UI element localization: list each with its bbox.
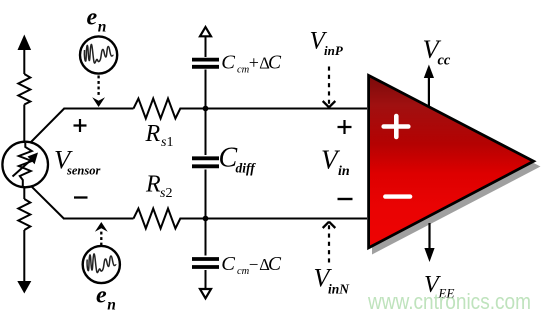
minus sign near sensor bottom wire <box>74 196 88 198</box>
svg-text:s1: s1 <box>161 135 173 150</box>
V_cc arrow <box>424 65 434 107</box>
op-amp minus sign (white) <box>385 194 410 198</box>
label V_sensor <box>54 145 100 178</box>
resistor bottom bias (vertical zigzag) <box>18 199 30 230</box>
svg-text:diff: diff <box>236 161 257 176</box>
svg-text:sensor: sensor <box>66 164 100 178</box>
svg-text:e: e <box>96 283 107 309</box>
svg-text:n: n <box>98 18 107 35</box>
dashed arrow from e_n bottom to wire <box>95 222 108 246</box>
svg-text:www.cntronics.com: www.cntronics.com <box>367 289 531 314</box>
wire from sensor to bottom bias resistor <box>23 187 25 199</box>
resistor top bias (vertical zigzag) <box>18 74 30 105</box>
label e_n (top) <box>87 5 107 36</box>
dashed arrow from e_n top to wire <box>92 76 105 108</box>
label C_cm+dC <box>221 52 282 76</box>
supply arrow down (bottom-left rail) <box>17 230 31 294</box>
svg-text:in: in <box>338 164 350 179</box>
resistor R_s1 <box>134 99 184 119</box>
label R_s2 <box>145 172 172 202</box>
label R_s1 <box>145 121 174 150</box>
svg-text:s2: s2 <box>160 186 172 201</box>
op-amp shadow <box>372 81 541 255</box>
svg-text:C: C <box>268 53 282 74</box>
label V_cc <box>423 34 451 69</box>
capacitor C_diff <box>192 158 219 166</box>
capacitor bus vertical wire (top section) <box>205 36 207 290</box>
minus sign at op-amp input <box>338 198 353 200</box>
capacitor C_cm-dC (bottom) <box>192 259 219 267</box>
svg-text:+: + <box>249 52 259 72</box>
svg-text:R: R <box>145 121 161 147</box>
wire diagonal from sensor top to + wire <box>31 109 65 143</box>
svg-text:C: C <box>221 253 235 275</box>
V_EE arrow <box>424 223 434 262</box>
label V_in <box>321 145 350 180</box>
wire bottom (- input wire from sensor to op-amp) <box>63 218 367 220</box>
sensor arrow <box>13 153 39 177</box>
label V_EE <box>424 272 454 301</box>
sensor V_sensor (circle) <box>2 142 48 188</box>
capacitor C_cm+dC (top) <box>192 60 219 67</box>
label V_inP <box>310 28 344 59</box>
svg-text:inP: inP <box>324 43 344 58</box>
noise source e_n (top) circle <box>80 36 117 73</box>
node N junction dot <box>203 216 209 222</box>
op-amp U1 triangle <box>369 75 534 247</box>
dashed arrow V_inN up to node wire <box>323 222 336 263</box>
wire top (+ input wire from sensor to op-amp) <box>64 108 368 110</box>
label C_diff <box>219 143 257 176</box>
svg-text:e: e <box>87 5 98 31</box>
svg-text:C: C <box>268 254 282 275</box>
noise waveform (top) <box>84 44 113 63</box>
label C_cm-dC <box>221 253 282 277</box>
open arrow up (top of capacitor bus) <box>200 27 211 36</box>
noise source e_n (bottom) circle <box>83 246 120 283</box>
resistor R_s2 <box>134 209 184 229</box>
svg-text:cc: cc <box>438 53 451 69</box>
label e_n (bottom) <box>96 283 116 314</box>
open arrow down (bottom of capacitor bus) <box>200 289 211 298</box>
svg-text:R: R <box>145 172 161 198</box>
svg-text:−: − <box>249 255 259 274</box>
wire diagonal from sensor bottom to - wire <box>31 186 64 218</box>
label V_inN <box>314 264 351 297</box>
supply arrow up (top-left rail) <box>18 35 32 75</box>
svg-text:inN: inN <box>328 282 350 297</box>
node P junction dot <box>203 106 209 112</box>
dashed arrow V_inP down to node wire <box>323 67 336 108</box>
svg-text:n: n <box>107 297 116 314</box>
svg-text:C: C <box>221 52 235 74</box>
op-amp plus sign (white) <box>384 116 409 137</box>
noise waveform (bottom) <box>87 254 116 273</box>
plus sign at op-amp input <box>338 120 352 134</box>
sensor internal zigzag <box>19 143 32 186</box>
plus sign near sensor top wire <box>74 119 87 132</box>
wire from top bias resistor to sensor <box>23 105 25 144</box>
